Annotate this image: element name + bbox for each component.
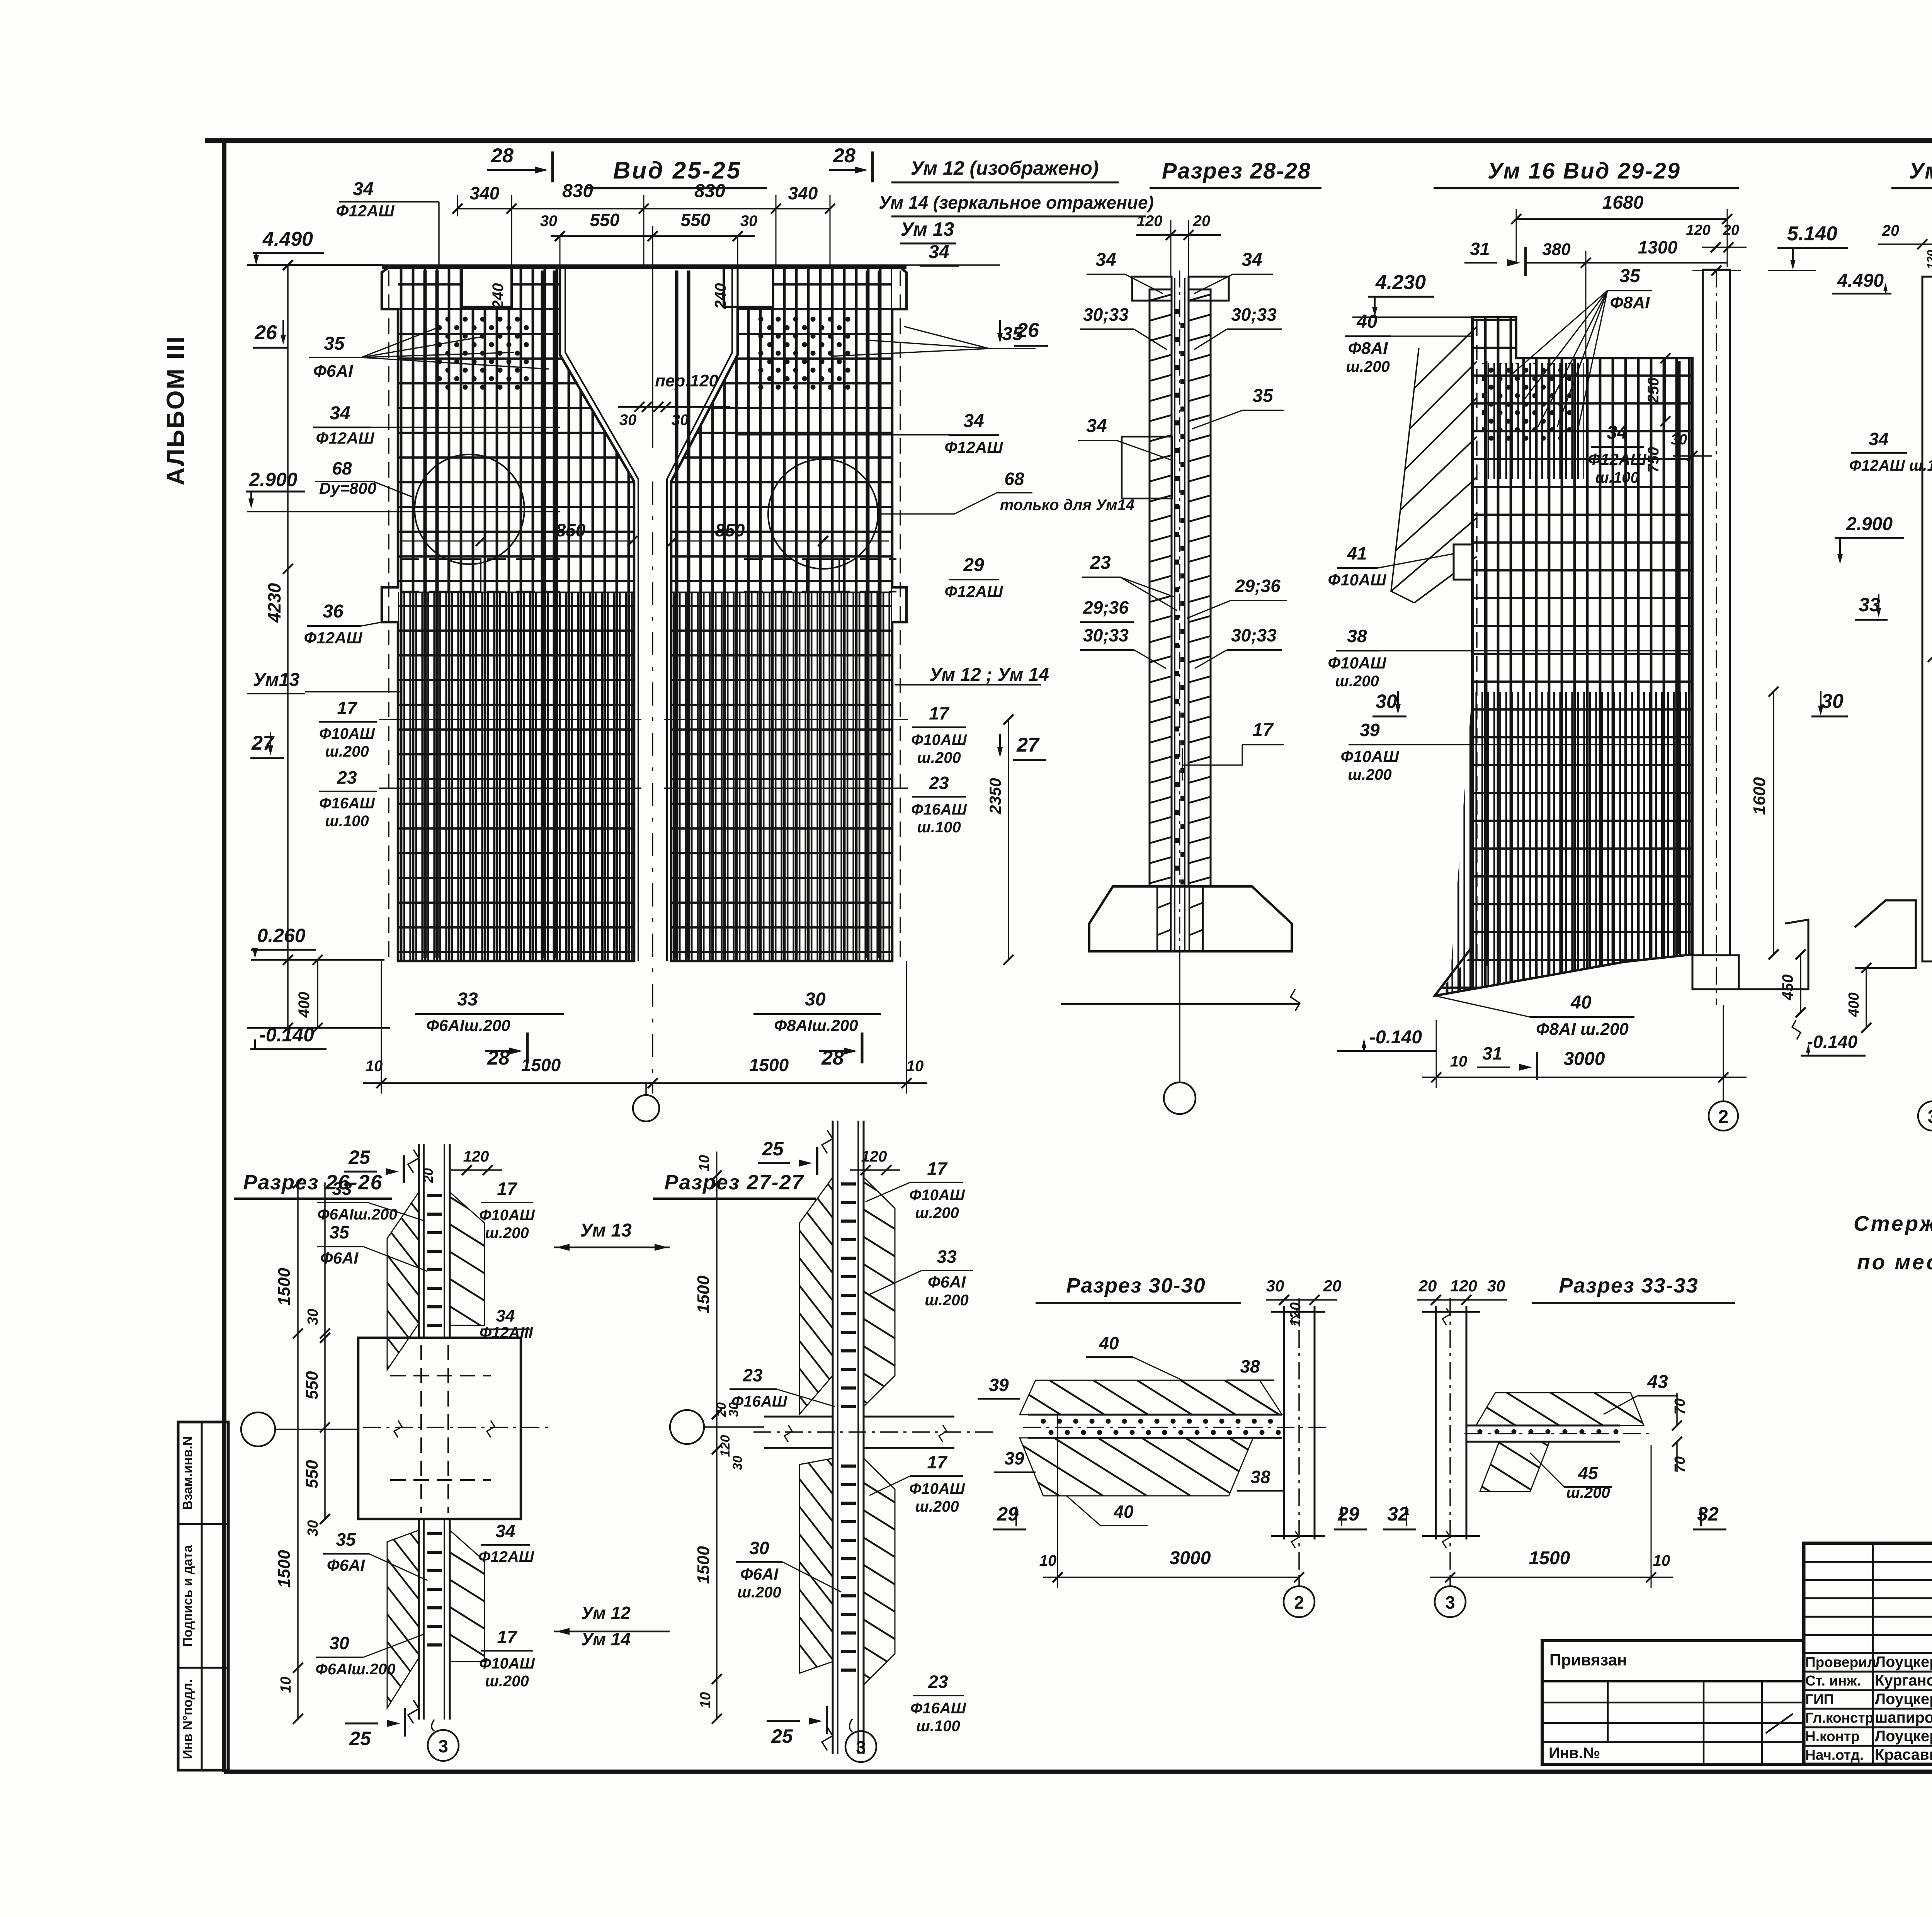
view A funnel slot right line	[671, 267, 738, 961]
svg-text:3: 3	[1928, 1107, 1932, 1127]
svg-text:30: 30	[1487, 1277, 1505, 1295]
svg-text:40: 40	[1099, 1333, 1119, 1353]
attach table checkmark	[1766, 1714, 1793, 1733]
view G wall strip	[418, 1144, 420, 1338]
view A notch left	[462, 267, 512, 307]
view G stirrups lower	[427, 1532, 442, 1535]
svg-text:Ф6АIш.200: Ф6АIш.200	[316, 1661, 396, 1678]
svg-text:17: 17	[1252, 720, 1274, 740]
svg-text:Ф6АI: Ф6АI	[928, 1273, 966, 1291]
view A bottom dim line	[363, 1082, 927, 1084]
svg-text:Ф12АIII: Ф12АIII	[480, 1324, 533, 1341]
view B right strip	[1189, 289, 1211, 886]
svg-text:400: 400	[296, 992, 313, 1018]
title block names row 3	[1804, 1708, 1932, 1710]
svg-text:Ф12АШ ш.100: Ф12АШ ш.100	[1849, 457, 1932, 474]
view G dim chain	[324, 1182, 326, 1519]
view G hatch lower left	[387, 1530, 419, 1708]
svg-text:Ф10АШ: Ф10АШ	[479, 1207, 535, 1224]
view A right panel grid	[671, 267, 892, 961]
side strip inner divider	[201, 1422, 203, 1770]
svg-text:20: 20	[1882, 222, 1900, 239]
svg-text:Ф12АШ: Ф12АШ	[478, 1548, 534, 1565]
svg-text:ш.200: ш.200	[925, 1292, 968, 1309]
svg-text:10: 10	[1653, 1552, 1670, 1569]
svg-text:4.490: 4.490	[262, 228, 313, 250]
svg-text:3: 3	[438, 1736, 448, 1756]
svg-text:10: 10	[278, 1677, 294, 1693]
title block names row 2	[1804, 1689, 1932, 1691]
svg-text:Ф6АI: Ф6АI	[740, 1565, 779, 1583]
svg-text:2.900: 2.900	[1846, 514, 1893, 534]
svg-text:10: 10	[1450, 1053, 1468, 1070]
svg-text:Ф10АШ: Ф10АШ	[1341, 747, 1400, 765]
svg-text:ш.200: ш.200	[915, 1498, 959, 1515]
svg-text:550: 550	[303, 1371, 321, 1400]
svg-text:Стержни, перерезаемые сальник: Стержни, перерезаемые сальниками, отогну…	[1854, 1211, 1932, 1235]
svg-text:Ф6АIш.200: Ф6АIш.200	[426, 1016, 510, 1034]
svg-text:38: 38	[1347, 626, 1367, 646]
view C sh100 bars	[1488, 363, 1584, 479]
view A top thin line	[249, 264, 1000, 265]
svg-text:-0.140: -0.140	[1369, 1027, 1422, 1048]
svg-text:850: 850	[556, 520, 586, 540]
svg-text:29;36: 29;36	[1235, 576, 1281, 596]
svg-text:ш.200: ш.200	[485, 1673, 529, 1690]
svg-text:20: 20	[1723, 222, 1739, 238]
svg-text:20: 20	[1323, 1277, 1342, 1295]
svg-text:34: 34	[1869, 429, 1888, 449]
attach table row1	[1542, 1680, 1804, 1682]
view A left panel grid	[398, 267, 634, 961]
view A lower dense right	[671, 592, 892, 961]
view C vert dim 1600	[1773, 692, 1774, 954]
svg-text:1500: 1500	[694, 1546, 713, 1584]
attach table row4	[1542, 1741, 1804, 1743]
view C wall top tick	[1692, 270, 1741, 271]
svg-text:68: 68	[332, 458, 352, 478]
svg-text:Ф12АШ: Ф12АШ	[304, 629, 363, 647]
svg-text:34: 34	[330, 403, 350, 424]
svg-text:2: 2	[1718, 1107, 1729, 1127]
svg-text:120: 120	[1925, 250, 1932, 269]
svg-text:Ум 17. Вид 32-32: Ум 17. Вид 32-32	[1909, 158, 1932, 184]
view A vert dim 4230	[287, 265, 289, 1028]
view C axis circle 2	[1709, 1101, 1738, 1131]
svg-text:20: 20	[1193, 213, 1211, 230]
view C right wall base	[1692, 955, 1739, 989]
svg-text:120: 120	[1686, 222, 1710, 238]
svg-text:29;36: 29;36	[1083, 597, 1129, 617]
view A circle right	[768, 459, 878, 569]
svg-text:33: 33	[332, 1179, 352, 1199]
title block row line 6	[1804, 1652, 1932, 1654]
border frame left	[222, 141, 226, 1772]
view C panel top strip grid	[1472, 317, 1516, 358]
view A leader 17 line	[379, 719, 641, 720]
view B inner slot	[1174, 278, 1175, 951]
svg-text:550: 550	[681, 210, 711, 230]
svg-text:30: 30	[305, 1309, 321, 1325]
svg-text:380: 380	[1542, 240, 1571, 259]
svg-text:35: 35	[1252, 386, 1274, 406]
svg-text:39: 39	[989, 1375, 1009, 1395]
svg-text:70: 70	[1672, 1456, 1688, 1473]
svg-text:31: 31	[1482, 1043, 1502, 1063]
view G hatch lower right	[450, 1530, 485, 1662]
svg-text:2.900: 2.900	[248, 469, 297, 490]
svg-text:27: 27	[1016, 734, 1040, 756]
svg-text:Инв N°подл.: Инв N°подл.	[180, 1679, 195, 1759]
svg-text:400: 400	[1846, 992, 1862, 1017]
svg-text:340: 340	[470, 183, 500, 203]
svg-text:30: 30	[619, 412, 637, 429]
svg-text:1500: 1500	[749, 1055, 789, 1075]
svg-text:1500: 1500	[275, 1268, 294, 1306]
svg-text:1500: 1500	[1529, 1548, 1570, 1568]
svg-text:450: 450	[1779, 975, 1796, 1001]
svg-text:40: 40	[1356, 311, 1378, 332]
view C dim 1680	[1516, 218, 1727, 220]
svg-text:Курганова: Курганова	[1875, 1672, 1932, 1689]
svg-text:23: 23	[928, 1672, 948, 1692]
view A funnel slot left line	[560, 267, 634, 961]
svg-text:30: 30	[540, 213, 558, 230]
svg-text:33: 33	[457, 989, 478, 1010]
svg-text:23: 23	[337, 767, 357, 788]
svg-text:550: 550	[590, 210, 620, 230]
view A leader 34 line right	[738, 434, 949, 435]
svg-text:120: 120	[1450, 1277, 1477, 1295]
view H stirrups lower	[841, 1465, 856, 1468]
view G hatch upper right	[450, 1192, 485, 1325]
svg-text:17: 17	[927, 1158, 948, 1179]
svg-text:АЛЬБОМ III: АЛЬБОМ III	[162, 335, 189, 485]
svg-text:Ум 13: Ум 13	[900, 218, 954, 240]
attach table col3	[1761, 1681, 1763, 1764]
view A notch right	[724, 267, 773, 307]
svg-text:34: 34	[353, 179, 373, 199]
view A vert dim 2350	[1008, 720, 1009, 960]
svg-text:17: 17	[929, 703, 950, 723]
svg-text:31: 31	[1470, 239, 1490, 259]
view A dotted zone left	[437, 313, 534, 390]
view D foundation	[1855, 900, 1916, 968]
svg-text:240: 240	[490, 283, 507, 310]
svg-text:Инв.№: Инв.№	[1549, 1745, 1600, 1762]
view C right wall	[1703, 270, 1730, 955]
svg-text:Ум13: Ум13	[253, 670, 300, 690]
svg-text:Разрез 30-30: Разрез 30-30	[1066, 1274, 1206, 1297]
svg-text:Ф16АШ: Ф16АШ	[319, 795, 375, 812]
svg-text:Красавин: Красавин	[1875, 1746, 1932, 1763]
view H axis bubble	[670, 1410, 704, 1444]
view H hatch lower left	[799, 1458, 833, 1673]
svg-text:-0.140: -0.140	[1807, 1032, 1858, 1052]
view C vert dim 450	[1800, 954, 1801, 1012]
svg-text:10: 10	[697, 1692, 714, 1708]
view H axis circle 3	[845, 1731, 876, 1762]
svg-text:ГИП: ГИП	[1805, 1691, 1834, 1707]
svg-text:Ф16АШ: Ф16АШ	[731, 1393, 787, 1410]
svg-text:29: 29	[963, 555, 984, 575]
view C panel top-left box	[1459, 317, 1472, 958]
svg-text:2: 2	[1294, 1592, 1304, 1613]
view C panel outline	[1435, 317, 1692, 996]
svg-text:1680: 1680	[1602, 192, 1644, 213]
view B axis line	[1179, 951, 1180, 1082]
svg-text:Ум 14 (зеркальное отражение): Ум 14 (зеркальное отражение)	[879, 192, 1154, 213]
svg-text:120: 120	[861, 1148, 887, 1165]
svg-text:70: 70	[1672, 1398, 1688, 1415]
view C lower dense	[1449, 692, 1692, 993]
attach table col1	[1607, 1681, 1609, 1742]
svg-text:40: 40	[1570, 992, 1592, 1013]
svg-text:30: 30	[749, 1538, 769, 1558]
svg-text:10: 10	[366, 1058, 383, 1075]
view H hatch upper left	[799, 1177, 833, 1414]
svg-text:30: 30	[329, 1633, 349, 1653]
view H dim chain	[716, 1182, 718, 1720]
view B mid step left	[1122, 437, 1172, 498]
svg-text:750: 750	[1645, 447, 1662, 473]
view A circle left	[415, 454, 524, 564]
svg-text:Ф16АШ: Ф16АШ	[911, 801, 967, 818]
svg-text:30;33: 30;33	[1083, 304, 1129, 325]
svg-text:30: 30	[740, 213, 758, 230]
svg-text:Ф10АШ: Ф10АШ	[909, 1187, 965, 1204]
view C dim 250	[1665, 358, 1666, 421]
title block names row 4	[1804, 1726, 1932, 1728]
svg-text:Ф10АШ: Ф10АШ	[1328, 654, 1387, 672]
svg-text:830: 830	[562, 181, 593, 201]
attach table outer	[1542, 1641, 1804, 1764]
svg-text:35: 35	[329, 1222, 350, 1242]
svg-text:Гл.констр: Гл.констр	[1805, 1710, 1874, 1726]
svg-text:30: 30	[1376, 691, 1397, 712]
title block names row 1	[1804, 1671, 1932, 1673]
svg-text:Ф6АI: Ф6АI	[313, 362, 354, 381]
view C bottom dim	[1422, 1077, 1747, 1078]
view B foundation	[1089, 886, 1292, 951]
svg-text:33: 33	[937, 1247, 957, 1267]
svg-text:30: 30	[1821, 690, 1844, 713]
svg-text:23: 23	[1090, 553, 1111, 573]
svg-text:35: 35	[336, 1529, 356, 1550]
svg-text:Разрез 28-28: Разрез 28-28	[1162, 158, 1311, 184]
svg-text:Ф12АШ: Ф12АШ	[945, 582, 1003, 600]
svg-text:830: 830	[694, 181, 725, 201]
view B axis circle	[1164, 1082, 1196, 1114]
view H hatch upper right	[864, 1177, 895, 1407]
svg-text:28: 28	[491, 145, 514, 167]
svg-text:ш.200: ш.200	[1335, 673, 1379, 690]
svg-text:38: 38	[1240, 1356, 1260, 1376]
svg-text:23: 23	[742, 1365, 763, 1385]
svg-text:Ф12АШ: Ф12АШ	[336, 202, 395, 220]
view C face hatch	[1391, 327, 1477, 603]
view H mid band	[764, 1417, 954, 1448]
title block row line 5	[1804, 1634, 1932, 1636]
view B left strip	[1150, 289, 1172, 886]
svg-text:3: 3	[1445, 1592, 1455, 1613]
view A leader Ум13 line	[305, 691, 400, 692]
svg-text:30: 30	[730, 1456, 745, 1470]
svg-text:25: 25	[762, 1138, 784, 1160]
svg-text:850: 850	[715, 520, 745, 540]
svg-text:120: 120	[463, 1148, 489, 1165]
view C panel grid	[1435, 358, 1692, 996]
svg-text:Подпись и дата: Подпись и дата	[180, 1544, 195, 1647]
view J hatch small lower	[1480, 1442, 1549, 1492]
view I axis circle 2	[1284, 1586, 1315, 1617]
attach table row2	[1542, 1702, 1804, 1704]
svg-text:Ум 12 ; Ум 14: Ум 12 ; Ум 14	[929, 665, 1049, 685]
view A dim row1	[457, 208, 830, 209]
title block row line 4	[1804, 1616, 1932, 1618]
border frame bottom	[224, 1770, 1932, 1774]
svg-text:30: 30	[805, 989, 826, 1010]
svg-text:ш.200: ш.200	[1348, 766, 1391, 783]
view A lower dense left	[398, 592, 634, 961]
svg-text:1500: 1500	[694, 1276, 713, 1313]
svg-text:30: 30	[1671, 432, 1687, 448]
svg-text:17: 17	[927, 1452, 948, 1472]
svg-text:Ф16АШ: Ф16АШ	[910, 1700, 966, 1717]
view A right panel outline	[671, 267, 906, 961]
attach table col2	[1703, 1681, 1705, 1764]
svg-text:30: 30	[305, 1520, 321, 1536]
view A dashed edge left	[388, 270, 389, 961]
view B rebar dots	[1174, 309, 1179, 314]
svg-text:1600: 1600	[1750, 777, 1769, 815]
title block col a	[1872, 1543, 1874, 1764]
view H stirrups upper	[841, 1182, 856, 1186]
svg-text:ш.100: ш.100	[1595, 469, 1639, 486]
svg-text:120: 120	[1287, 1302, 1304, 1327]
svg-text:Ф10АШ: Ф10АШ	[909, 1480, 965, 1497]
svg-text:10: 10	[696, 1155, 713, 1171]
svg-text:25: 25	[771, 1725, 793, 1747]
svg-text:ш.100: ш.100	[916, 1718, 960, 1735]
svg-text:Лоуцкер: Лоуцкер	[1875, 1728, 1932, 1745]
svg-text:45: 45	[1578, 1463, 1599, 1483]
side strip row line 2	[178, 1667, 228, 1669]
view C step 41	[1454, 544, 1472, 580]
view A funnel slot left inner	[565, 267, 638, 961]
svg-text:Ф8АIш.200: Ф8АIш.200	[774, 1016, 858, 1034]
svg-text:34: 34	[929, 242, 949, 262]
svg-text:35: 35	[1002, 324, 1023, 344]
view G axis circle 3	[428, 1730, 459, 1761]
svg-text:Ф6АI: Ф6АI	[327, 1556, 365, 1574]
view A heavy bars right	[675, 270, 679, 958]
svg-text:34: 34	[496, 1306, 515, 1325]
svg-text:Ф12АШ: Ф12АШ	[1588, 450, 1647, 468]
view J axis circle 3	[1435, 1586, 1466, 1617]
view I bottom dim	[1043, 1577, 1300, 1578]
title block row line 2	[1804, 1579, 1932, 1581]
svg-text:30;33: 30;33	[1231, 625, 1277, 645]
title block row line 3	[1804, 1597, 1932, 1599]
view J vert wall	[1435, 1306, 1437, 1539]
view C dotted zone	[1482, 363, 1571, 444]
svg-text:ш.100: ш.100	[325, 813, 369, 830]
svg-text:1300: 1300	[1638, 237, 1678, 257]
svg-text:4230: 4230	[264, 583, 284, 623]
svg-text:25: 25	[348, 1146, 371, 1168]
svg-text:3: 3	[856, 1737, 866, 1757]
svg-text:пер.120: пер.120	[655, 371, 718, 390]
title block outer	[1804, 1543, 1932, 1764]
svg-text:Ум 12: Ум 12	[581, 1603, 631, 1623]
svg-text:30;33: 30;33	[1231, 304, 1277, 325]
view A axis circle	[633, 1095, 659, 1121]
svg-text:1500: 1500	[275, 1550, 294, 1588]
svg-text:35: 35	[1619, 266, 1641, 286]
svg-text:шапиро: шапиро	[1875, 1709, 1932, 1726]
title block row line 1	[1804, 1561, 1932, 1563]
svg-text:только для Ум14: только для Ум14	[1000, 497, 1134, 514]
svg-text:4.230: 4.230	[1375, 271, 1426, 294]
svg-text:Разрез 26-26: Разрез 26-26	[243, 1171, 383, 1194]
svg-text:ш.200: ш.200	[917, 749, 961, 766]
svg-text:Dy=800: Dy=800	[319, 479, 376, 497]
side strip box	[178, 1422, 228, 1770]
svg-text:41: 41	[1347, 543, 1367, 563]
view H wall strip	[832, 1121, 834, 1754]
view A slot centerline	[652, 226, 653, 448]
title block names row 5	[1804, 1745, 1932, 1747]
view C heavy bars	[1484, 361, 1488, 966]
svg-text:Вид 25-25: Вид 25-25	[613, 157, 742, 184]
svg-text:34: 34	[495, 1521, 515, 1541]
svg-text:33: 33	[1859, 594, 1880, 616]
svg-text:17: 17	[497, 1179, 518, 1199]
svg-text:Лоуцкер: Лоуцкер	[1875, 1691, 1932, 1708]
svg-text:Ф10АШ: Ф10АШ	[911, 731, 967, 748]
view B top caps	[1132, 277, 1172, 301]
svg-text:Ст. инж.: Ст. инж.	[1805, 1673, 1861, 1689]
svg-text:17: 17	[337, 698, 358, 718]
svg-text:39: 39	[1360, 720, 1380, 740]
view G axis bubble	[241, 1412, 275, 1446]
svg-text:35: 35	[324, 333, 345, 354]
svg-text:40: 40	[1113, 1502, 1134, 1522]
view A funnel slot right inner	[667, 267, 732, 961]
svg-text:Лоуцкер: Лоуцкер	[1875, 1653, 1932, 1670]
svg-text:Ф10АШ: Ф10АШ	[319, 725, 375, 742]
view I hatch upper	[1020, 1380, 1282, 1415]
svg-text:ш.200: ш.200	[485, 1225, 529, 1242]
svg-text:43: 43	[1647, 1372, 1668, 1392]
svg-text:3000: 3000	[1170, 1548, 1211, 1568]
svg-text:39: 39	[1004, 1448, 1024, 1468]
svg-text:2350: 2350	[986, 778, 1004, 814]
svg-text:34: 34	[1242, 250, 1262, 270]
view G mid block	[358, 1338, 521, 1519]
view I slab	[1028, 1414, 1282, 1416]
svg-text:1500: 1500	[521, 1055, 561, 1075]
side strip row line 1	[178, 1523, 228, 1525]
svg-text:26: 26	[254, 321, 277, 344]
view A leader Ум12 line right	[895, 684, 1041, 685]
view A leader 23 line	[379, 788, 641, 789]
svg-text:0.260: 0.260	[257, 925, 305, 946]
svg-text:10: 10	[906, 1058, 924, 1075]
attach table row3	[1542, 1722, 1804, 1724]
svg-text:36: 36	[323, 601, 344, 622]
